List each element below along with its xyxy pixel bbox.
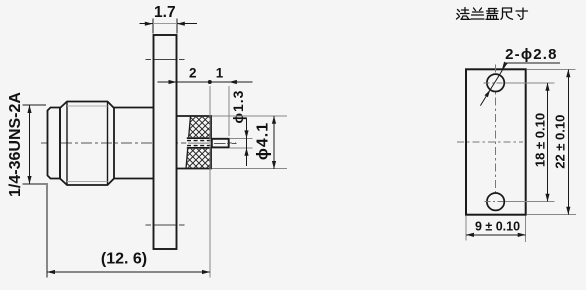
arrow at pin end [229, 80, 237, 84]
dim phi1.3: dimension line with outside arrows [246, 118, 248, 167]
dim 2 / 1: dimension line [158, 81, 253, 83]
thread body outline [48, 108, 61, 179]
dim 1.7: extension lines [153, 19, 177, 34]
dim (12.6): extension lines [46, 183, 48, 278]
dim phi4.1: extension lines [212, 116, 287, 169]
svg-text:9 ± 0.10: 9 ± 0.10 [475, 220, 520, 234]
vertical centerline [495, 65, 497, 213]
cylinder section [114, 108, 154, 179]
arrow at flange rear face [169, 80, 177, 84]
dim 1.7: dimension line and outside arrows [140, 23, 198, 25]
centerline through pin [214, 142, 237, 144]
dielectric slanted front edge [186, 116, 191, 169]
bottom mounting-hole centerline [146, 224, 185, 226]
horizontal centerline [457, 141, 523, 143]
top mounting hole [487, 74, 504, 91]
svg-text:1/4-36UNS-2A: 1/4-36UNS-2A [7, 92, 24, 197]
svg-text:(12. 6): (12. 6) [101, 251, 147, 268]
center pin [212, 139, 229, 148]
svg-text:1.7: 1.7 [154, 4, 176, 21]
char 盘 [486, 9, 499, 20]
svg-text:2-ϕ2.8: 2-ϕ2.8 [505, 46, 558, 63]
svg-text:2: 2 [189, 66, 197, 81]
centerline axis [41, 142, 236, 144]
svg-text:18 ± 0.10: 18 ± 0.10 [532, 113, 547, 167]
char 寸 [516, 8, 528, 19]
char 法 [457, 8, 470, 20]
leader line through hole [480, 63, 506, 106]
dim 18: extension lines from hole centers [505, 83, 555, 202]
leader shelf [506, 62, 560, 64]
flange plate outline [466, 69, 526, 214]
title 法兰盘尺寸 (drawn strokes) [457, 8, 528, 20]
dim 22: dimension line with arrows [567, 69, 569, 214]
rear body (dielectric housing) [177, 116, 212, 169]
svg-text:1: 1 [216, 66, 224, 81]
extension line at dielectric face [209, 86, 211, 278]
top hole horizontal centerline [484, 82, 509, 84]
hex nut section [60, 102, 114, 186]
flange plate (edge view) [154, 35, 177, 249]
dim 9: dimension line with arrows [466, 234, 526, 236]
char 兰 [471, 8, 484, 19]
dim phi1.3: extension lines [230, 138, 253, 147]
bottom hole horizontal centerline [485, 201, 509, 203]
node dot at dielectric face [208, 80, 212, 84]
dim 22: extension lines [527, 69, 576, 214]
leader arrow upper [502, 62, 508, 70]
dim 18: dimension line with arrows [547, 83, 549, 202]
bottom mounting hole [487, 193, 504, 210]
top mounting-hole centerline [146, 59, 185, 61]
pin passage band through dielectric [186, 137, 211, 149]
dim phi4.1: dimension line with arrows [273, 116, 275, 169]
leader arrow lower [485, 90, 491, 98]
dim (12.6): dimension line with arrows [47, 271, 210, 273]
svg-text:ϕ1.3: ϕ1.3 [230, 90, 246, 124]
svg-text:22 ± 0.10: 22 ± 0.10 [552, 115, 567, 169]
dielectric cross-hatch [130, 115, 268, 170]
char 尺 [501, 8, 513, 19]
dim 9: extension lines [466, 216, 526, 242]
dim thread: dimension line with arrows [29, 105, 31, 184]
dim thread 1/4-36UNS-2A: extension lines [23, 105, 47, 184]
svg-text:ϕ4.1: ϕ4.1 [255, 122, 272, 160]
extension line at pin end [228, 86, 230, 136]
